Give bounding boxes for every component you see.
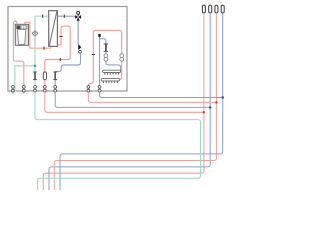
terminal X3	[34, 86, 37, 93]
junction node green	[34, 65, 37, 68]
valve outlet drop (blue)	[77, 21, 79, 44]
connector P2	[209, 5, 212, 13]
sensor drop to X7 (blue)	[99, 37, 101, 92]
connector P3	[215, 5, 218, 13]
wire X3 loop (green)	[35, 92, 201, 190]
wire X4 to P1 (red)	[45, 92, 204, 112]
check valve above X5	[53, 72, 57, 80]
tick on supply pipe	[59, 58, 61, 61]
check valve above X3	[33, 72, 37, 80]
separator flow to valve (blue)	[57, 15, 75, 17]
valve tick on green top	[42, 15, 44, 18]
terminal X2	[22, 86, 25, 93]
boiler return pipe (orange right)	[25, 22, 51, 48]
three-way valve V1	[75, 11, 81, 20]
boiler B1	[15, 24, 28, 45]
wire P1 to lower bus (red)	[43, 13, 204, 190]
pump group left (stacked circles)	[104, 51, 108, 61]
branch to terminal X1 (green)	[15, 66, 35, 92]
stub into separator bottom	[50, 46, 52, 48]
wire X7 to P4 (blue)	[100, 92, 223, 97]
connector P4	[221, 5, 224, 13]
heating circuit supply (red, right module)	[93, 30, 121, 80]
stub X1 (green)	[12, 92, 14, 94]
wire P2 to lower bus (blue)	[49, 13, 210, 190]
separator return pipe to X4 (red U)	[45, 26, 70, 92]
tick on heating loop	[92, 54, 95, 56]
red drop from pump to lower manifold	[119, 61, 121, 79]
isolator I1	[104, 44, 108, 51]
hydraulic separator	[49, 11, 58, 47]
terminal X7	[98, 86, 101, 93]
wire P4 to lower bus (blue)	[60, 13, 223, 190]
pump P1	[32, 31, 38, 37]
secondary pump P2 (dark)	[78, 44, 81, 53]
branch to isolator column (blue)	[100, 39, 106, 44]
junction dot X5/P2	[209, 106, 211, 108]
terminal X6	[87, 86, 90, 93]
terminal X1	[12, 86, 15, 93]
junction dot X6/P3	[215, 101, 217, 103]
pipe from pump P2 to terminal X5 (blue)	[55, 53, 80, 92]
flow sensor (dark square)	[98, 34, 100, 37]
primary pump pipe (green)	[35, 16, 49, 92]
wire X5 to P2 (blue)	[55, 92, 210, 107]
junction dot X4/P1	[203, 111, 205, 113]
isolator above X4	[43, 72, 46, 80]
wire P3 to lower bus (red)	[54, 13, 216, 190]
blue drop from pump to upper manifold	[106, 61, 121, 70]
stub X2 (orange)	[23, 92, 25, 94]
tick on red U leg	[59, 36, 62, 38]
terminal X4	[43, 86, 46, 93]
upper manifold	[103, 70, 121, 74]
lower manifold	[101, 79, 120, 83]
junction dot X7/P4	[222, 96, 224, 98]
control module box	[8, 7, 127, 92]
valve tick on blue top	[63, 15, 65, 18]
connector P1	[202, 5, 205, 13]
jog to terminal X6 (red)	[88, 81, 93, 92]
pump group right (stacked circles)	[120, 54, 124, 62]
stub into separator right	[57, 44, 61, 46]
boiler flow pipe (orange left loop)	[13, 21, 23, 92]
wire X6 to P3 (red)	[88, 92, 216, 102]
terminal X5	[54, 86, 57, 93]
valve tick on boiler return	[43, 47, 45, 50]
